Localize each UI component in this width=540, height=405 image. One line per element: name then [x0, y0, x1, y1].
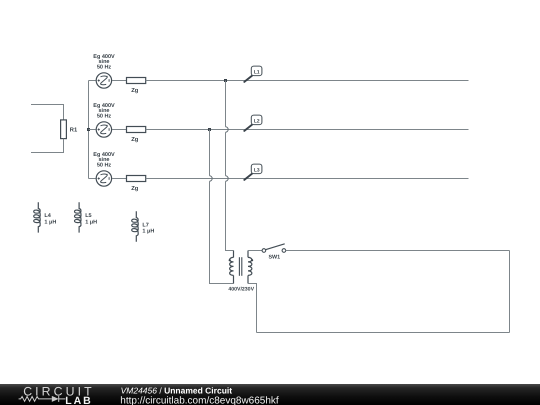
svg-text:L4: L4 [44, 213, 51, 219]
logo schematic squiggle (resistor + diode) [19, 396, 66, 402]
transformer secondary winding [248, 251, 252, 284]
svg-text:L1: L1 [254, 69, 260, 75]
switch SW1 [262, 244, 286, 253]
svg-text:VM24456 / Unnamed Circuit: VM24456 / Unnamed Circuit [121, 386, 233, 396]
svg-text:50 Hz: 50 Hz [97, 65, 112, 71]
svg-text:1 μH: 1 μH [44, 220, 56, 226]
wire R1 bottom lead [31, 139, 64, 153]
wire hop over phase3 (tap B) [210, 176, 213, 181]
source V2 [96, 122, 111, 137]
inductor L7 [132, 211, 139, 241]
source V1 [96, 73, 111, 88]
wire neutral bus vertical [88, 81, 90, 179]
junction neutral-phase2 [87, 128, 90, 131]
svg-text:L5: L5 [85, 213, 91, 219]
svg-text:L2: L2 [254, 118, 260, 124]
svg-text:50 Hz: 50 Hz [97, 163, 112, 169]
svg-text:L3: L3 [254, 167, 260, 173]
inductor L5 [75, 202, 82, 232]
resistor Zg2 [127, 127, 146, 133]
label V2 value [93, 103, 115, 120]
transformer primary winding [230, 251, 234, 284]
label V3 value [93, 152, 115, 169]
svg-text:L7: L7 [142, 222, 148, 228]
label V1 value [93, 54, 115, 71]
resistor Zg1 [127, 78, 146, 84]
wire secondary bottom return [248, 284, 257, 333]
svg-text:Zg: Zg [131, 88, 139, 94]
wire tap A lower segment to primary top elbow [226, 181, 234, 250]
junction phase1 tap [224, 79, 227, 82]
wire phase1 line [146, 80, 469, 82]
svg-text:1 μH: 1 μH [85, 220, 97, 226]
transformer primary polarity dot [229, 259, 231, 261]
wire R1 top lead [31, 105, 64, 121]
svg-text:http://circuitlab.com/c8evq8w6: http://circuitlab.com/c8evq8w665hkf [120, 395, 279, 405]
wire V2 left stub [89, 129, 96, 131]
wire V3 left stub [89, 178, 96, 180]
svg-text:Zg: Zg [131, 137, 139, 143]
source V3 [96, 171, 111, 186]
node flag L1 [244, 66, 262, 82]
wire V1 left stub [89, 80, 96, 82]
resistor R1 [61, 120, 67, 139]
wire V1 to Zg1 [112, 80, 127, 82]
transformer core [239, 257, 241, 276]
svg-text:400V/230V: 400V/230V [228, 286, 254, 292]
svg-text:1 μH: 1 μH [142, 229, 154, 235]
wire load loop bottom [257, 332, 510, 334]
wire secondary top to switch [248, 250, 262, 252]
svg-text:LAB: LAB [65, 395, 92, 405]
wire phase2 line [146, 129, 469, 131]
svg-text:50 Hz: 50 Hz [97, 114, 112, 120]
wire hop over phase2 [226, 127, 229, 132]
wire load loop right vertical [509, 251, 511, 333]
wire tap B lower segment to primary bottom elbow [210, 181, 234, 283]
wire V2 to Zg2 [112, 129, 127, 131]
junction phase2 tap [208, 128, 211, 131]
inductor L4 [34, 202, 41, 232]
wire tap A mid segment [225, 132, 227, 176]
transformer secondary polarity dot [251, 259, 253, 261]
wire V3 to Zg3 [112, 178, 127, 180]
svg-text:R1: R1 [70, 128, 78, 134]
svg-text:SW1: SW1 [268, 254, 280, 260]
svg-text:Zg: Zg [131, 186, 139, 192]
wire tap B upper segment [209, 130, 211, 176]
wire tap A upper segment [225, 81, 227, 127]
node flag L2 [244, 115, 262, 131]
wire switch to right side [286, 250, 510, 252]
wire phase3 line [146, 178, 469, 180]
wire hop over phase3 [226, 176, 229, 181]
resistor Zg3 [127, 176, 146, 182]
node flag L3 [244, 164, 262, 180]
